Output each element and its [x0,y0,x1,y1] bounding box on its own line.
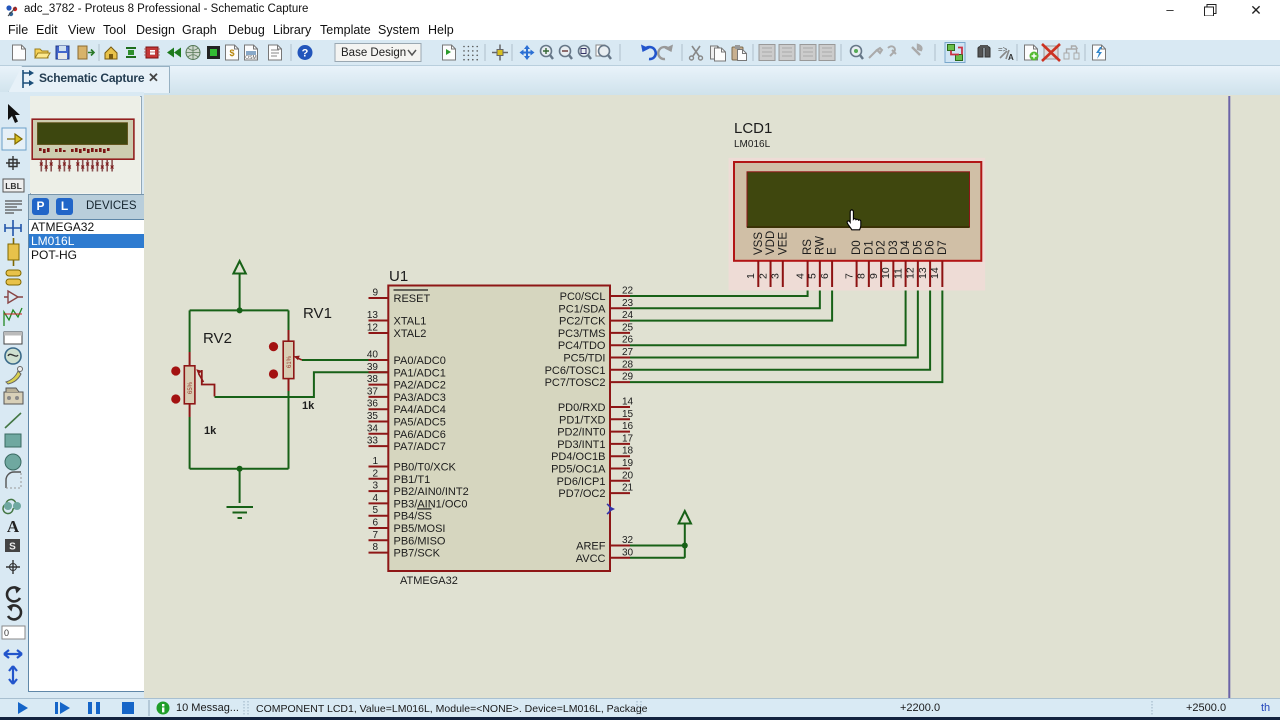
U1 pin 19 PD5/OC1A [551,458,633,476]
svg-text:33: 33 [367,436,379,447]
svg-text:3: 3 [372,481,378,492]
U1 pin 23 PC1/SDA [558,298,633,316]
U1 pin 12 XTAL2 [367,323,426,341]
svg-text:24: 24 [622,310,634,321]
svg-text:D4: D4 [900,240,912,255]
U1 pin 27 PC5/TDI [563,347,633,365]
svg-text:D7: D7 [937,240,949,255]
svg-text:XTAL1: XTAL1 [394,316,427,328]
U1 pin 1 PB0/T0/XCK [369,456,457,474]
svg-text:13: 13 [917,267,929,279]
svg-text:A: A [1008,53,1014,62]
junction AREF riser [682,543,688,549]
U1 pin 34 PA6/ADC6 [367,423,446,441]
svg-text:PD0/RXD: PD0/RXD [558,402,606,414]
svg-text:22: 22 [622,286,634,297]
main panels [0,92,28,698]
svg-text:12: 12 [905,267,917,279]
svg-text:PC1/SDA: PC1/SDA [558,303,606,315]
svg-text:PB2/AIN0/INT2: PB2/AIN0/INT2 [394,486,469,498]
svg-text:16: 16 [622,421,634,432]
svg-text:RW: RW [814,236,826,255]
junction pot top rail [237,307,243,313]
svg-text:37: 37 [367,386,379,397]
U1 pin 26 PC4/TDO [558,335,634,353]
LCD1 pin 10 D3 [880,240,900,287]
svg-text:PD1/TXD: PD1/TXD [559,414,606,426]
toolbar [0,40,1280,66]
svg-text:PB6/MISO: PB6/MISO [394,535,446,547]
svg-text:40: 40 [367,350,379,361]
svg-text:OSM: OSM [245,55,256,61]
svg-text:LBL: LBL [5,181,22,191]
origin marker (blue) on U1 [607,504,615,514]
U1 pin 38 PA2/ADC2 [367,374,446,392]
LCD1 screen [747,172,970,227]
U1 pin 4 PB3/AIN1/OC0 [369,493,468,511]
label RV2 [203,330,232,347]
LCD1 pin 4 RS [794,239,814,287]
svg-text:ATMEGA32: ATMEGA32 [400,575,458,587]
U1 pin 20 PD6/ICP1 [557,470,634,488]
wire PC5-D5 [630,287,918,358]
svg-text:VDD: VDD [765,231,777,255]
menu bar [0,20,1280,40]
RV1 terminal dot top [269,342,278,351]
svg-text:?: ? [302,48,309,60]
svg-text:PA7/ADC7: PA7/ADC7 [394,441,446,453]
wire RV1 wiper to PA0 [302,359,388,361]
svg-text:28: 28 [622,359,634,370]
wire to ground [239,469,241,503]
svg-text:PC7/TOSC2: PC7/TOSC2 [545,377,606,389]
U1 pin 8 PB7/SCK [369,542,441,560]
svg-text:32: 32 [622,535,634,546]
potentiometer RV1 [283,341,302,378]
svg-text:1k: 1k [204,425,217,437]
U1 pin 32 AREF [576,535,633,553]
svg-text:1k: 1k [302,400,315,412]
svg-text:PD5/OC1A: PD5/OC1A [551,464,606,476]
svg-text:PA6/ADC6: PA6/ADC6 [394,429,446,441]
svg-text:6: 6 [372,518,378,529]
wire AREF/AVCC riser [684,523,686,558]
preview LCD body [32,119,134,159]
wire RV1 bottom [288,379,290,469]
LCD1 pin 11 D4 [892,240,912,287]
svg-text:9: 9 [372,288,378,299]
svg-text:PD4/OC1B: PD4/OC1B [551,451,605,463]
IC U1 body [388,286,610,572]
svg-text:PA0/ADC0: PA0/ADC0 [394,355,446,367]
svg-text:26: 26 [622,335,634,346]
U1 pin 18 PD4/OC1B [551,446,633,464]
svg-text:5: 5 [372,505,378,516]
UI chrome icons [0,40,1280,65]
svg-text:PC5/TDI: PC5/TDI [563,353,605,365]
value RV1 1k [302,400,315,412]
svg-text:PB1/T1: PB1/T1 [394,474,431,486]
U1 pin 13 XTAL1 [367,310,426,328]
mouse cursor [847,210,861,230]
status bar content [0,698,1280,718]
svg-text:20: 20 [622,470,634,481]
title bar [0,0,1280,20]
svg-text:VEE: VEE [777,232,789,255]
svg-text:D1: D1 [863,240,875,255]
ground [227,507,254,518]
svg-text:0: 0 [4,628,9,638]
svg-text:PA4/ADC4: PA4/ADC4 [394,404,446,416]
svg-text:D2: D2 [876,240,888,255]
svg-text:XTAL2: XTAL2 [394,328,427,340]
svg-text:9: 9 [868,273,880,279]
svg-text:PC4/TDO: PC4/TDO [558,340,606,352]
U1 pin 40 PA0/ADC0 [367,350,446,368]
U1 pin 37 PA3/ADC3 [367,386,446,404]
LCD1 selection highlight [729,158,986,291]
wire RV2 bottom [189,404,191,469]
RV2 terminal dot top [171,366,180,375]
tab bar [0,66,1280,95]
U1 pin 15 PD1/TXD [559,409,634,427]
LCD1 pin 6 E [819,247,839,287]
svg-text:LM016L: LM016L [734,139,771,150]
svg-text:1: 1 [372,456,378,467]
svg-text:RESET: RESET [394,293,431,305]
status bar [0,698,1280,719]
wire RV2 top [189,310,191,366]
svg-text:PB0/T0/XCK: PB0/T0/XCK [394,462,457,474]
svg-text:7: 7 [372,530,378,541]
wire pot top rail [190,309,289,311]
svg-text:PC2/TCK: PC2/TCK [559,316,606,328]
svg-text:S: S [9,542,16,553]
svg-text:27: 27 [622,347,634,358]
svg-text:PA2/ADC2: PA2/ADC2 [394,380,446,392]
U1 pin 29 PC7/TOSC2 [545,372,634,390]
svg-text:Base Design: Base Design [341,47,406,59]
svg-text:PD2/INT0: PD2/INT0 [557,427,605,439]
svg-text:D3: D3 [888,240,900,255]
svg-text:PB7/SCK: PB7/SCK [394,548,441,560]
junction pot bottom rail [237,466,243,472]
svg-text:19: 19 [622,458,634,469]
U1 pin 16 PD2/INT0 [557,421,633,439]
svg-text:$: $ [229,48,234,58]
svg-text:23: 23 [622,298,634,309]
svg-text:E: E [827,247,839,255]
U1 pin 30 AVCC [576,547,634,565]
wire AVCC [630,557,685,559]
svg-text:8: 8 [856,273,868,279]
U1 pin 17 PD3/INT1 [557,433,633,451]
svg-text:PD7/OC2: PD7/OC2 [558,488,605,500]
svg-text:VSS: VSS [753,232,765,255]
svg-text:PC3/TMS: PC3/TMS [558,328,606,340]
svg-text:PC6/TOSC1: PC6/TOSC1 [545,365,606,377]
U1 pin 5 PB4/SS [369,505,433,523]
svg-text:PB5/MOSI: PB5/MOSI [394,523,446,535]
svg-text:36: 36 [367,399,379,410]
svg-text:D0: D0 [851,240,863,255]
U1 pin 39 PA1/ADC1 [367,362,446,380]
svg-text:PD3/INT1: PD3/INT1 [557,439,605,451]
svg-text:30: 30 [622,547,634,558]
LCD1 pin 9 D2 [868,240,888,287]
U1 pin 25 PC3/TMS [558,322,634,340]
U1 pin 6 PB5/MOSI [369,518,446,536]
LCD1 body [734,162,981,261]
svg-text:D5: D5 [912,240,924,255]
svg-text:35: 35 [367,411,379,422]
U1 pin 7 PB6/MISO [369,530,446,548]
U1 pin 14 PD0/RXD [558,397,634,415]
svg-text:A: A [7,517,20,536]
svg-text:11: 11 [892,268,904,279]
svg-text:4: 4 [372,493,378,504]
svg-text:D6: D6 [925,240,937,255]
svg-text:5: 5 [807,273,819,279]
label RV1 [303,305,332,322]
wire PC0-RS [630,287,808,296]
U1 pin 21 PD7/OC2 [558,483,633,501]
LCD1 pin 7 D0 [843,240,863,287]
wire PC1-RW [630,287,820,308]
svg-text:38: 38 [367,374,379,385]
svg-text:2: 2 [757,273,769,279]
svg-text:6: 6 [819,273,831,279]
svg-text:LCD1: LCD1 [734,120,772,137]
preview LCD pins [40,160,114,172]
RV2 terminal dot bottom [171,394,180,403]
label U1 [389,268,408,285]
LCD1 pin 14 D7 [929,240,949,287]
svg-text:25: 25 [622,322,634,333]
value ATMEGA32 [400,575,458,587]
svg-text:21: 21 [622,483,634,494]
LCD1 pin 13 D6 [917,240,937,287]
U1 pin 28 PC6/TOSC1 [545,359,634,377]
wire PC2-E [630,287,832,321]
svg-text:7: 7 [843,273,855,279]
U1 pin 35 PA5/ADC5 [367,411,446,429]
svg-text:14: 14 [622,397,634,408]
U1 pin 24 PC2/TCK [559,310,634,328]
LCD1 pin 12 D5 [905,240,925,287]
svg-text:34: 34 [367,423,379,434]
U1 pin 36 PA4/ADC4 [367,399,446,417]
U1 pin 3 PB2/AIN0/INT2 [369,481,469,499]
LCD1 pin 1 VSS [745,232,765,287]
svg-text:PC0/SCL: PC0/SCL [560,291,606,303]
svg-text:29: 29 [622,372,634,383]
svg-text:RS: RS [802,239,814,255]
LCD1 pin 3 VEE [770,232,790,287]
svg-text:12: 12 [367,323,379,334]
value RV2 1k [204,425,217,437]
U1 pin 9 RESET [369,288,431,306]
svg-text:AVCC: AVCC [576,553,606,565]
RV1 terminal dot bottom [269,369,278,378]
LCD1 pin 8 D1 [856,240,876,287]
LCD1 pin 2 VDD [757,231,777,287]
wire RV1 top [288,310,290,341]
svg-text:1: 1 [745,273,757,279]
power symbol VCC (pot network) [233,261,245,310]
wire PC4-D4 [630,287,906,345]
svg-text:4: 4 [794,273,806,279]
svg-text:61%: 61% [287,355,293,368]
U1 pin 22 PC0/SCL [560,286,634,304]
svg-text:39: 39 [367,362,379,373]
svg-text:17: 17 [622,433,634,444]
svg-text:PA5/ADC5: PA5/ADC5 [394,417,446,429]
svg-text:RV2: RV2 [203,330,232,347]
potentiometer RV2 [184,366,203,404]
svg-text:8: 8 [372,542,378,553]
power symbol VCC (AREF/AVCC) [679,511,691,524]
wire PC6-D6 [630,287,930,370]
svg-text:3: 3 [770,273,782,279]
svg-text:65%: 65% [188,381,194,394]
sheet border [1228,96,1230,698]
U1 pin 2 PB1/T1 [369,468,431,486]
wire PC7-D7 [630,287,942,382]
value LM016L [734,139,771,150]
svg-text:18: 18 [622,446,634,457]
wire RV2 wiper to PA1 [215,372,389,397]
svg-text:AREF: AREF [576,541,606,553]
svg-text:2: 2 [372,468,378,479]
svg-text:U1: U1 [389,268,408,285]
LCD1 pin 5 RW [807,236,827,287]
wire AREF [630,545,685,547]
label LCD1 [734,120,772,137]
svg-text:15: 15 [622,409,634,420]
svg-text:PA3/ADC3: PA3/ADC3 [394,392,446,404]
svg-text:PA1/ADC1: PA1/ADC1 [394,367,446,379]
schematic canvas [144,95,1280,698]
svg-text:10: 10 [880,267,892,279]
svg-text:PB4/SS: PB4/SS [394,511,433,523]
U1 pin 33 PA7/ADC7 [367,436,446,454]
svg-text:13: 13 [367,310,379,321]
svg-text:RV1: RV1 [303,305,332,322]
svg-text:14: 14 [929,267,941,279]
wire pot bottom rail [190,468,289,470]
RV2 wiper lead [202,370,215,397]
svg-text:PD6/ICP1: PD6/ICP1 [557,476,606,488]
